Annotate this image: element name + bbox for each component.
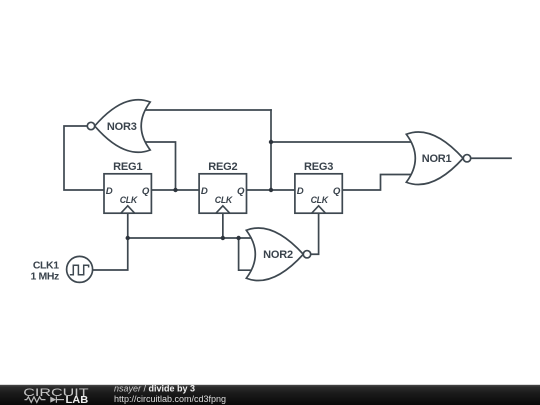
nor gate NOR1 [406,132,470,185]
footer logo resistor-diode glyph [25,396,65,402]
svg-text:NOR2: NOR2 [263,249,293,261]
wire REG3 Q to NOR1 bottom input [342,175,412,191]
node junction NOR1 top input branch [269,140,273,144]
node junction REG2 CLK [221,236,225,240]
clock source CLK1 square wave glyph [70,265,89,274]
svg-text:D: D [297,186,304,197]
flip-flop REG1 clock edge triangle [121,206,135,213]
wire REG1 CLK pin [127,213,129,238]
flip-flop REG1 box [104,174,151,213]
svg-text:Q: Q [333,186,341,197]
svg-text:D: D [106,186,113,197]
svg-text:CLK: CLK [311,195,329,205]
flip-flop REG2 clock edge triangle [216,206,230,213]
wire clock rail [128,237,253,239]
svg-text:Q: Q [237,186,245,197]
svg-text:D: D [201,186,208,197]
svg-text:CLK: CLK [215,195,233,205]
wire NOR1 output [471,157,511,159]
svg-text:nsayer / divide by 3: nsayer / divide by 3 [114,384,195,394]
svg-text:LAB: LAB [66,395,89,405]
wire REG2 CLK pin [222,213,224,238]
footer bar [0,385,540,405]
wire REG2 Q to REG3 D [247,189,295,191]
svg-text:1 MHz: 1 MHz [31,271,59,283]
wire NOR3 bottom input branch from REG1 Q [146,142,176,190]
svg-text:NOR3: NOR3 [107,121,137,133]
svg-text:REG2: REG2 [208,161,237,173]
flip-flop REG3 box [295,174,342,213]
svg-text:http://circuitlab.com/cd3fpng: http://circuitlab.com/cd3fpng [114,394,226,404]
node junction REG2 Q [269,188,273,192]
wire node to NOR1 top input [271,141,412,143]
nor gate NOR2 [246,228,310,281]
svg-text:NOR1: NOR1 [422,153,452,165]
wire NOR2 lower input branch [239,238,253,270]
svg-text:REG1: REG1 [113,161,142,173]
wire NOR2 output to REG3 CLK pin [311,213,319,254]
nor gate NOR3 (mirrored, pointing left) [87,100,150,153]
svg-text:Q: Q [142,186,150,197]
wire REG1 Q to REG2 D [151,189,199,191]
wire CLK1 to clock rail [93,238,128,270]
flip-flop REG3 clock edge triangle [312,206,326,213]
svg-text:CLK: CLK [120,195,138,205]
svg-text:REG3: REG3 [304,161,333,173]
wire NOR3 output to REG1 D [64,126,104,190]
node junction REG1 Q branch [173,188,177,192]
clock source CLK1 [67,256,93,282]
node junction REG1 CLK [126,236,130,240]
wire NOR3 top input long run [146,109,271,111]
flip-flop REG2 box [199,174,246,213]
wire vertical at x=271 [270,110,272,190]
node junction NOR2 input branch [236,236,240,240]
